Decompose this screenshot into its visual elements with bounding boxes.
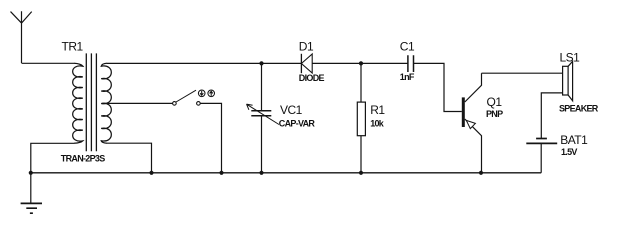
svg-text:TR1: TR1: [62, 40, 84, 54]
wire Q1 collector to LS1: [482, 72, 563, 74]
svg-text:Q1: Q1: [487, 95, 503, 109]
transformer TR1 primary winding: [73, 63, 83, 143]
transistor Q1 collector: [465, 73, 482, 102]
speaker LS1 cone: [568, 61, 573, 100]
diode D1 triangle: [301, 54, 312, 73]
transistor Q1 emitter: [465, 119, 482, 173]
transistor Q1 base bar: [462, 97, 465, 127]
capacitor VC1 arrow: [247, 104, 280, 124]
battery BAT1 bottom lead: [540, 143, 542, 172]
wire TR1 tap to switch: [102, 102, 173, 104]
switch actuator down-arrow: [198, 90, 205, 97]
svg-text:BAT1: BAT1: [560, 133, 588, 147]
svg-text:1.5V: 1.5V: [561, 147, 577, 157]
node dot VC1/top rail: [259, 61, 263, 65]
node dot R1/rail: [359, 171, 363, 175]
svg-text:PNP: PNP: [486, 109, 503, 119]
wire TR1 primary bottom to ground node: [31, 143, 74, 173]
svg-text:VC1: VC1: [280, 103, 303, 117]
svg-text:TRAN-2P3S: TRAN-2P3S: [61, 153, 105, 163]
svg-text:10k: 10k: [370, 118, 385, 128]
svg-text:LS1: LS1: [560, 50, 581, 64]
svg-text:C1: C1: [400, 40, 415, 54]
wire TR1 secondary bottom to rail: [107, 143, 152, 173]
resistor R1 body: [357, 102, 365, 136]
speaker LS1 bottom pin wire: [541, 93, 562, 139]
wire switch to rail: [200, 103, 221, 172]
wire C1 to Q1 base: [414, 63, 462, 111]
antenna AE: [11, 11, 32, 63]
transformer TR1 core: [86, 53, 96, 151]
resistor R1 top lead: [360, 63, 362, 102]
diode D1 cathode bar: [300, 54, 302, 73]
ground stem: [30, 173, 32, 204]
node dot ground rail left: [29, 171, 33, 175]
resistor R1 bottom lead: [360, 136, 362, 173]
wire TR1 secondary top to top rail: [107, 62, 301, 64]
node dot R1/top rail: [359, 61, 363, 65]
switch SW throw: [197, 102, 201, 106]
svg-text:SPEAKER: SPEAKER: [559, 104, 599, 114]
capacitor VC1 plates: [251, 111, 271, 116]
transistor Q1 emitter arrow: [466, 120, 475, 128]
svg-text:CAP-VAR: CAP-VAR: [279, 119, 316, 129]
wire antenna to TR1 primary: [22, 62, 75, 64]
capacitor C1 plates: [408, 55, 414, 72]
svg-text:D1: D1: [299, 40, 314, 54]
svg-text:1nF: 1nF: [400, 72, 415, 82]
ground symbol: [21, 203, 42, 213]
bottom rail wire: [31, 172, 541, 174]
node dot Q1 emitter/rail: [479, 171, 483, 175]
battery BAT1 positive plate: [536, 138, 547, 140]
capacitor VC1 top lead: [261, 63, 263, 110]
battery BAT1 negative plate: [526, 142, 557, 144]
transformer TR1 secondary winding: [101, 63, 111, 143]
speaker LS1 body: [563, 66, 569, 95]
switch SW lever: [176, 90, 196, 102]
capacitor VC1 bottom lead: [261, 116, 263, 173]
svg-text:DIODE: DIODE: [299, 73, 325, 83]
node dot switch/rail: [219, 171, 223, 175]
node dot secondary bottom/rail: [149, 171, 153, 175]
switch SW pole: [173, 102, 177, 106]
svg-text:R1: R1: [370, 103, 385, 117]
switch actuator up-arrow: [208, 90, 215, 97]
wire D1 to C1 on top rail: [312, 62, 408, 64]
node dot VC1/rail: [259, 171, 263, 175]
